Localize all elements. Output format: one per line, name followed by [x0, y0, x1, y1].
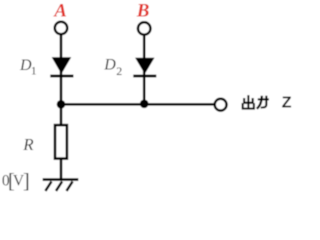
svg-text:1: 1 [31, 64, 37, 78]
svg-text:2: 2 [116, 64, 122, 78]
svg-text:D: D [103, 57, 116, 74]
svg-text:]: ] [23, 169, 30, 193]
svg-text:Z: Z [282, 95, 292, 112]
svg-text:A: A [53, 1, 67, 22]
svg-text:B: B [136, 1, 150, 22]
svg-text:R: R [22, 135, 34, 154]
